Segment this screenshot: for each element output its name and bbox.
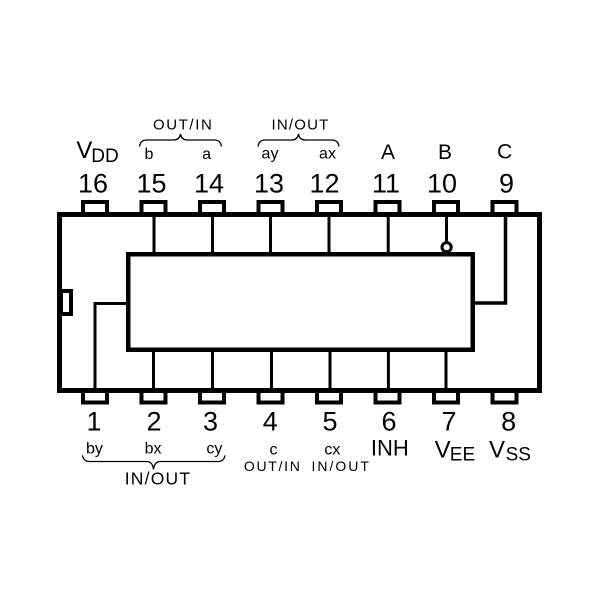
svg-text:11: 11: [372, 169, 400, 199]
pin 4 stub: [259, 391, 283, 403]
svg-text:b: b: [144, 146, 153, 163]
svg-text:2: 2: [146, 407, 161, 437]
wire pin 2 to inner block: [152, 348, 155, 390]
pin 14 stub: [200, 202, 224, 215]
brace under pins 1-3: [83, 455, 226, 469]
wire pin 9 down-left to inner block: [473, 216, 506, 303]
brace over pins 13-12: [258, 134, 339, 147]
pin 3 stub: [200, 391, 224, 403]
svg-text:IN/OUT: IN/OUT: [271, 117, 329, 134]
svg-text:c: c: [270, 442, 278, 459]
pin 9 stub: [493, 202, 517, 215]
pin 1 stub: [83, 391, 107, 403]
svg-text:IN/OUT: IN/OUT: [125, 469, 192, 489]
pin 5 stub: [317, 391, 341, 403]
svg-text:ax: ax: [319, 146, 336, 163]
svg-text:8: 8: [501, 407, 516, 437]
inner function block: [128, 254, 473, 350]
svg-text:ay: ay: [262, 146, 279, 163]
pin1 orientation notch on left edge: [61, 291, 71, 314]
wire pin 11 to inner block: [387, 216, 390, 256]
svg-text:16: 16: [78, 169, 108, 199]
wire pin 12 to inner block: [328, 216, 331, 256]
wire pin 4 to inner block: [270, 348, 273, 390]
svg-text:by: by: [86, 441, 103, 458]
svg-text:DD: DD: [91, 146, 118, 167]
svg-text:9: 9: [499, 169, 514, 199]
inverter bubble on pin 10 wire: [442, 243, 451, 252]
wire pin 15 to inner block: [153, 216, 156, 256]
svg-text:EE: EE: [450, 444, 475, 465]
svg-text:B: B: [438, 141, 452, 164]
pin 8 stub: [493, 391, 517, 403]
svg-text:1: 1: [86, 407, 101, 437]
svg-text:SS: SS: [506, 444, 531, 465]
wire pin 5 to inner block: [329, 348, 332, 390]
svg-text:OUT/IN: OUT/IN: [244, 458, 302, 474]
pin 6 stub: [376, 391, 400, 403]
svg-text:IN/OUT: IN/OUT: [311, 458, 370, 474]
pin 11 stub: [376, 202, 400, 215]
svg-text:cx: cx: [324, 442, 340, 459]
svg-text:V: V: [489, 437, 505, 464]
svg-text:15: 15: [136, 169, 166, 199]
svg-text:C: C: [497, 141, 512, 164]
svg-text:V: V: [76, 137, 92, 164]
svg-text:A: A: [381, 141, 395, 164]
wire pin 10 to bubble: [445, 216, 448, 244]
pin 10 stub: [434, 202, 458, 215]
svg-text:7: 7: [441, 407, 456, 437]
svg-text:OUT/IN: OUT/IN: [153, 117, 213, 134]
wire pin 7 to inner block: [445, 348, 448, 390]
pin 13 stub: [259, 202, 283, 215]
wire pin 14 to inner block: [211, 216, 214, 256]
pin 15 stub: [142, 202, 166, 215]
svg-text:INH: INH: [371, 436, 409, 461]
pin 2 stub: [142, 391, 166, 403]
svg-text:14: 14: [194, 169, 224, 199]
svg-text:5: 5: [322, 407, 337, 437]
wire pin 6 to inner block: [387, 348, 390, 390]
svg-text:a: a: [202, 146, 211, 163]
svg-text:6: 6: [381, 407, 396, 437]
svg-text:10: 10: [427, 169, 457, 199]
wire pin 3 to inner block: [211, 348, 214, 390]
svg-text:3: 3: [203, 407, 218, 437]
svg-text:cy: cy: [206, 441, 222, 458]
brace over pins 15-14: [140, 134, 222, 147]
svg-text:12: 12: [309, 169, 339, 199]
IC body outline: [60, 215, 540, 391]
pin 16 stub: [83, 202, 107, 215]
svg-text:13: 13: [254, 169, 284, 199]
svg-text:bx: bx: [145, 441, 162, 458]
wire pin 13 to inner block: [269, 216, 272, 256]
svg-text:4: 4: [263, 407, 278, 437]
wire pin 1 up-right to inner block: [95, 304, 130, 391]
pin 12 stub: [317, 202, 341, 215]
pin 7 stub: [434, 391, 458, 403]
svg-text:V: V: [435, 437, 451, 464]
